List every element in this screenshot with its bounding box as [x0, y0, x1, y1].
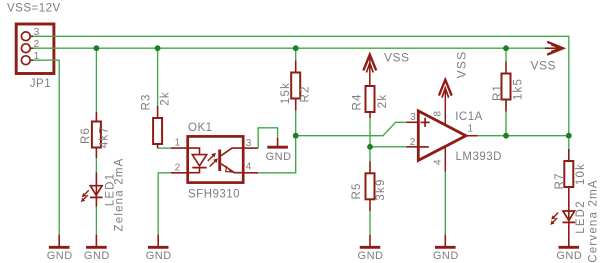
wire + input net: node to opamp pin3: [296, 122, 407, 135]
wire OK1 pin4 to + input node: [258, 136, 296, 173]
svg-text:Cervena 2mA: Cervena 2mA: [588, 179, 600, 263]
svg-text:1: 1: [468, 124, 474, 135]
svg-text:2: 2: [175, 162, 181, 173]
resistor R5 pin stubs: [369, 161, 371, 211]
connector JP1: [16, 24, 54, 74]
LED2 diode: [563, 187, 576, 246]
svg-text:SFH9310: SFH9310: [188, 188, 240, 200]
svg-text:3k9: 3k9: [375, 178, 387, 200]
ground GND6: [556, 247, 582, 262]
ground GND3: [146, 235, 172, 262]
svg-text:4: 4: [246, 162, 252, 173]
OK1 pin1 stub: [171, 147, 187, 149]
svg-text:R4: R4: [351, 93, 363, 110]
svg-text:4k7: 4k7: [99, 126, 111, 148]
LED1 emission arrows: [81, 190, 89, 202]
svg-text:GND: GND: [84, 250, 110, 262]
wire net output: JP1 pin3 to right side down to opamp output node: [33, 36, 569, 135]
resistor R4: [366, 86, 375, 112]
svg-text:2: 2: [410, 137, 416, 148]
svg-text:2k: 2k: [377, 94, 389, 109]
svg-text:VSS: VSS: [384, 51, 410, 65]
resistor R6 pin stubs: [95, 112, 97, 158]
svg-text:VSS: VSS: [531, 59, 557, 73]
svg-text:4: 4: [433, 159, 444, 165]
svg-text:VSS=12V: VSS=12V: [7, 3, 61, 15]
svg-text:GND: GND: [266, 151, 292, 163]
VSS supply arrow above opamp pin 8: [439, 80, 452, 98]
OK1 pin4 stub: [244, 172, 259, 174]
svg-text:IC1A: IC1A: [455, 111, 483, 123]
svg-text:GND: GND: [47, 250, 73, 262]
wire R2 branch: [295, 48, 297, 136]
svg-text:GND: GND: [146, 250, 172, 262]
wire R7 branch from output node: [568, 136, 570, 149]
resistor R6: [92, 122, 101, 148]
opamp pin 4 stub: [444, 146, 446, 172]
resistor R7: [564, 161, 573, 187]
wire net VSS rail: JP1 pin2 to VSS arrow: [33, 47, 545, 49]
op-amp IC1A: [418, 111, 466, 160]
opamp output pin stub: [466, 135, 478, 137]
ground GND5: [433, 235, 459, 262]
OK1 pin3 stub: [244, 147, 259, 149]
svg-text:R7: R7: [554, 172, 566, 189]
LED2 emission arrows: [550, 213, 558, 225]
svg-text:Zelena 2mA: Zelena 2mA: [113, 157, 125, 231]
OK1 pin2 stub: [171, 172, 187, 174]
resistor R1: [502, 74, 511, 100]
VSS supply arrow (right pointing): [545, 42, 563, 55]
svg-text:LED2: LED2: [575, 200, 587, 234]
wire R6 branch from VSS rail: [95, 48, 97, 235]
svg-text:R2: R2: [300, 85, 312, 102]
svg-text:VSS: VSS: [454, 51, 468, 79]
opamp input pin stubs: [406, 122, 418, 147]
R4 bottom stub: [369, 112, 371, 118]
wire R1 branch: [505, 48, 507, 136]
wire OK1 pin2 to ground: [158, 173, 171, 235]
svg-text:1: 1: [175, 137, 181, 148]
wire - input node down to R5: [369, 147, 371, 162]
wire R4 to - input node: [369, 118, 371, 147]
svg-text:GND: GND: [433, 250, 459, 262]
wire R3 branch from VSS rail: [158, 48, 171, 148]
wire net GND: JP1 pin1 down to ground: [33, 60, 59, 235]
resistor R7 pin stub top: [568, 149, 570, 161]
ground GND4: [358, 235, 384, 262]
svg-text:GND: GND: [358, 250, 384, 262]
resistor R5: [366, 173, 375, 199]
resistor R3: [153, 118, 162, 144]
wire opamp output net: [478, 135, 569, 137]
svg-text:GND: GND: [556, 250, 582, 262]
resistor R1 pin stubs: [505, 62, 507, 112]
wire R5 to ground: [369, 211, 371, 235]
ground GND2: [84, 235, 110, 262]
svg-text:R5: R5: [351, 182, 363, 199]
resistor R3 pin stubs: [157, 106, 159, 148]
svg-text:LM393D: LM393D: [456, 151, 502, 163]
svg-text:10k: 10k: [575, 163, 587, 185]
LED1 diode: [90, 173, 103, 207]
svg-text:R1: R1: [492, 84, 504, 101]
svg-text:R6: R6: [80, 127, 92, 144]
VSS supply arrow above R4: [363, 55, 376, 86]
svg-text:15k: 15k: [280, 82, 292, 104]
svg-text:R3: R3: [141, 93, 153, 110]
svg-text:8: 8: [433, 110, 444, 116]
ground GND mid (OK1 pin3): [266, 138, 292, 163]
svg-text:2k: 2k: [159, 91, 171, 106]
svg-text:JP1: JP1: [30, 78, 51, 90]
wire opamp pin4 to ground: [444, 172, 446, 235]
optocoupler OK1: [187, 136, 243, 182]
svg-text:1k5: 1k5: [513, 78, 525, 100]
wire - input net to opamp pin2: [370, 146, 406, 148]
resistor R2: [291, 73, 300, 99]
svg-text:OK1: OK1: [188, 122, 213, 134]
svg-text:3: 3: [410, 112, 416, 123]
resistor R2 pin stubs: [295, 61, 297, 111]
wire OK1 pin3 to mid ground: [258, 128, 277, 148]
opamp pin 8 stub: [444, 87, 446, 126]
ground GND1: [47, 235, 73, 262]
